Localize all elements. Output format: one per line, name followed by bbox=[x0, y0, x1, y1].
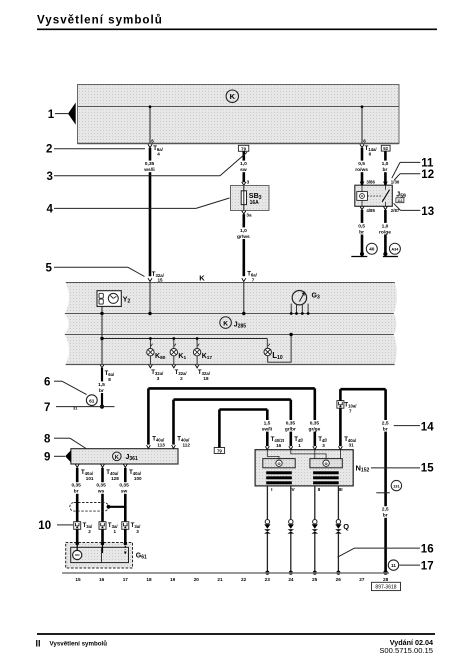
svg-text:61: 61 bbox=[89, 398, 95, 404]
svg-text:21: 21 bbox=[217, 577, 223, 582]
svg-text:br: br bbox=[383, 167, 388, 173]
svg-text:1: 1 bbox=[48, 109, 55, 121]
svg-text:2,5: 2,5 bbox=[382, 507, 389, 513]
svg-text:1,0: 1,0 bbox=[240, 228, 247, 234]
svg-text:0,35: 0,35 bbox=[286, 420, 296, 426]
svg-text:9: 9 bbox=[44, 452, 50, 464]
svg-text:6: 6 bbox=[151, 138, 154, 143]
svg-text:3: 3 bbox=[47, 171, 53, 183]
svg-text:17: 17 bbox=[123, 577, 129, 582]
svg-text:1,0: 1,0 bbox=[382, 161, 389, 167]
svg-text:br: br bbox=[74, 489, 79, 495]
svg-text:113: 113 bbox=[157, 442, 165, 447]
svg-text:12: 12 bbox=[421, 169, 434, 181]
svg-text:16: 16 bbox=[99, 577, 105, 582]
svg-text:14: 14 bbox=[421, 421, 434, 433]
svg-text:15: 15 bbox=[75, 577, 81, 582]
svg-text:40: 40 bbox=[369, 247, 375, 253]
svg-text:3: 3 bbox=[322, 443, 325, 448]
svg-text:ws: ws bbox=[97, 490, 105, 495]
svg-text:II: II bbox=[36, 639, 41, 649]
svg-text:K: K bbox=[230, 92, 236, 101]
svg-text:24: 24 bbox=[288, 577, 294, 582]
svg-text:11: 11 bbox=[421, 157, 434, 169]
svg-text:79: 79 bbox=[217, 449, 222, 454]
svg-text:gr/ge: gr/ge bbox=[309, 426, 321, 432]
svg-text:19: 19 bbox=[170, 577, 176, 582]
svg-text:III: III bbox=[339, 487, 344, 493]
svg-text:1/30: 1/30 bbox=[391, 180, 400, 185]
svg-text:ro/ge: ro/ge bbox=[379, 229, 391, 235]
svg-text:6: 6 bbox=[369, 152, 372, 157]
svg-text:Vysvětlení symbolů: Vysvětlení symbolů bbox=[37, 14, 163, 27]
svg-text:11: 11 bbox=[391, 563, 396, 568]
svg-text:8: 8 bbox=[108, 377, 111, 382]
svg-text:br: br bbox=[383, 513, 388, 519]
svg-text:0,35: 0,35 bbox=[145, 161, 155, 167]
svg-text:6: 6 bbox=[363, 138, 366, 143]
svg-text:2: 2 bbox=[46, 144, 52, 156]
svg-text:27: 27 bbox=[359, 577, 365, 582]
svg-text:4/85: 4/85 bbox=[366, 208, 375, 213]
svg-text:0,35: 0,35 bbox=[310, 420, 320, 426]
svg-text:16: 16 bbox=[421, 544, 434, 556]
svg-text:16A: 16A bbox=[250, 200, 260, 206]
svg-text:gr/br: gr/br bbox=[285, 426, 296, 432]
svg-text:K: K bbox=[115, 455, 119, 461]
svg-text:13: 13 bbox=[421, 206, 434, 218]
svg-text:0,35: 0,35 bbox=[119, 483, 129, 489]
svg-text:3: 3 bbox=[157, 376, 160, 381]
svg-text:sw: sw bbox=[240, 168, 247, 173]
svg-text:1: 1 bbox=[114, 529, 117, 534]
svg-text:2,5: 2,5 bbox=[382, 420, 389, 426]
svg-text:1,5: 1,5 bbox=[98, 382, 105, 388]
svg-text:1,5: 1,5 bbox=[264, 420, 271, 426]
svg-text:23: 23 bbox=[265, 577, 271, 582]
svg-text:G3: G3 bbox=[312, 293, 320, 301]
svg-text:0,5: 0,5 bbox=[358, 223, 365, 229]
svg-text:20: 20 bbox=[194, 577, 200, 582]
svg-text:100: 100 bbox=[134, 476, 142, 481]
svg-text:1: 1 bbox=[298, 443, 301, 448]
svg-text:3/86: 3/86 bbox=[366, 180, 375, 185]
svg-text:4: 4 bbox=[47, 204, 54, 216]
svg-text:2: 2 bbox=[88, 529, 91, 534]
svg-text:K: K bbox=[223, 321, 228, 328]
svg-text:gr/ws: gr/ws bbox=[237, 234, 250, 240]
svg-text:1,0: 1,0 bbox=[382, 223, 389, 229]
svg-text:18: 18 bbox=[203, 376, 209, 381]
svg-text:17: 17 bbox=[421, 561, 434, 573]
svg-text:Q: Q bbox=[343, 522, 349, 531]
svg-text:26: 26 bbox=[336, 577, 342, 582]
svg-text:31: 31 bbox=[349, 443, 355, 448]
svg-text:J285: J285 bbox=[234, 321, 246, 329]
svg-text:sw: sw bbox=[121, 490, 128, 495]
svg-text:52: 52 bbox=[383, 146, 388, 151]
svg-text:2: 2 bbox=[180, 376, 183, 381]
svg-text:7: 7 bbox=[349, 409, 352, 414]
svg-text:111: 111 bbox=[397, 199, 403, 203]
svg-text:0,35: 0,35 bbox=[72, 483, 82, 489]
svg-text:sw/li: sw/li bbox=[262, 426, 272, 432]
svg-text:112: 112 bbox=[183, 442, 191, 447]
svg-text:ʘ: ʘ bbox=[325, 461, 328, 466]
svg-text:22: 22 bbox=[241, 577, 247, 582]
svg-text:0,35: 0,35 bbox=[96, 483, 106, 489]
svg-text:br: br bbox=[359, 229, 364, 235]
svg-text:G61: G61 bbox=[136, 553, 147, 561]
svg-text:3: 3 bbox=[247, 179, 250, 184]
svg-text:br: br bbox=[383, 426, 388, 432]
svg-text:Y2: Y2 bbox=[123, 297, 131, 305]
svg-text:1,0: 1,0 bbox=[240, 161, 247, 167]
svg-text:15: 15 bbox=[421, 462, 434, 474]
svg-text:5: 5 bbox=[46, 263, 53, 275]
svg-text:br: br bbox=[99, 388, 104, 394]
svg-text:16: 16 bbox=[276, 443, 282, 448]
svg-text:18: 18 bbox=[146, 577, 152, 582]
svg-text:ʘ: ʘ bbox=[277, 461, 280, 466]
svg-text:ws/li: ws/li bbox=[143, 167, 155, 173]
svg-text:128: 128 bbox=[111, 476, 119, 481]
svg-text:S00.5715.00.15: S00.5715.00.15 bbox=[379, 646, 433, 655]
svg-text:0,5: 0,5 bbox=[358, 161, 365, 167]
svg-text:8: 8 bbox=[44, 433, 51, 445]
svg-text:10: 10 bbox=[38, 520, 51, 532]
svg-text:15: 15 bbox=[158, 278, 164, 283]
svg-text:Vysvětlení symbolů: Vysvětlení symbolů bbox=[50, 640, 108, 647]
svg-text:A34: A34 bbox=[391, 247, 399, 252]
svg-text:131: 131 bbox=[393, 484, 400, 489]
svg-text:25: 25 bbox=[312, 577, 318, 582]
svg-text:3: 3 bbox=[136, 529, 139, 534]
svg-text:897-3618: 897-3618 bbox=[375, 585, 396, 591]
svg-text:K: K bbox=[199, 274, 205, 283]
svg-text:101: 101 bbox=[86, 476, 94, 481]
svg-text:J361: J361 bbox=[126, 454, 138, 462]
svg-text:7: 7 bbox=[44, 402, 50, 414]
svg-text:3a: 3a bbox=[246, 212, 252, 217]
svg-text:ro/ws: ro/ws bbox=[355, 167, 368, 173]
svg-text:79: 79 bbox=[241, 146, 246, 151]
svg-text:6: 6 bbox=[44, 376, 50, 388]
svg-text:4: 4 bbox=[157, 152, 160, 157]
svg-text:7: 7 bbox=[252, 277, 255, 282]
svg-text:28: 28 bbox=[383, 577, 389, 582]
